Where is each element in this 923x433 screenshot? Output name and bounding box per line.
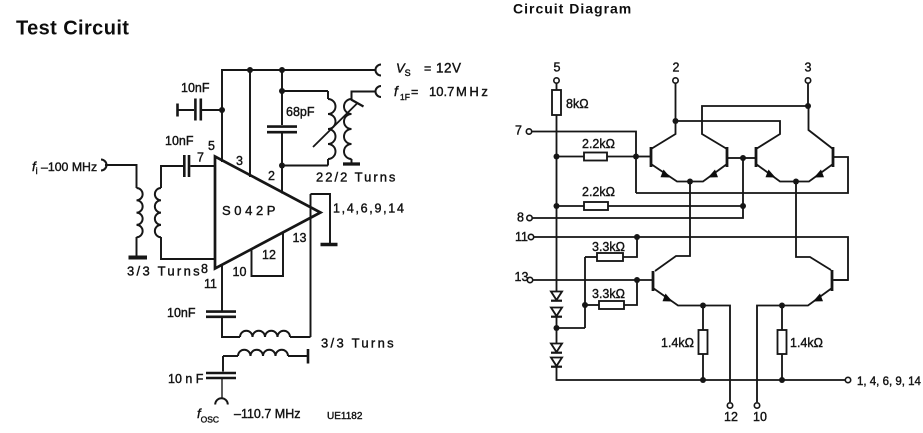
transistor Q5 base bar (652, 271, 655, 291)
inductor T1 secondary 3/3 turns (155, 188, 161, 237)
svg-text:10nF: 10nF (165, 134, 194, 148)
resistor R6 1.4k body (699, 330, 708, 354)
wire tank frame top (282, 90, 328, 92)
capacitor C1 10nF open terminal bar (176, 104, 179, 117)
ground T2 secondary (343, 162, 360, 165)
wire pin3 riser (249, 70, 251, 177)
wire pin12 loop (252, 233, 284, 276)
pin 3 terminal (805, 78, 810, 83)
transistor Q2 base bar (726, 147, 729, 167)
transistor Q4 collector (809, 106, 834, 149)
svg-text:7: 7 (515, 124, 522, 138)
svg-text:2: 2 (673, 61, 680, 75)
svg-text:3: 3 (805, 61, 812, 75)
capacitor C5 10nF plates (206, 372, 236, 375)
arrow Q5 emitter (663, 294, 673, 302)
transistor Q1 collector (651, 121, 676, 149)
node dot Q2/Q3 base tie (740, 155, 746, 161)
svg-text:1,4,6,9,14: 1,4,6,9,14 (333, 202, 406, 216)
wire Vs rail (222, 70, 376, 110)
svg-text:=: = (411, 85, 418, 99)
inductor T2 primary 22 turns (327, 91, 329, 99)
capacitor C3 68pF plates (267, 125, 297, 128)
transistor Q3 base bar (755, 147, 758, 167)
wire D4 to rail (557, 366, 846, 380)
resistor R2 2.2k body (584, 153, 607, 161)
svg-text:10nF: 10nF (181, 81, 210, 95)
terminal pins 1,4,6,9,14 (845, 377, 850, 382)
wire Vs to tank top (281, 70, 283, 125)
svg-text:=: = (424, 62, 431, 76)
wire R2 leads (557, 156, 585, 158)
pin 11 terminal (528, 234, 533, 239)
node dot tank top (279, 88, 285, 94)
svg-text:13: 13 (293, 231, 307, 245)
transistor Q3 emitter (756, 164, 796, 182)
svg-text:fi –100 MHz: fi –100 MHz (32, 159, 97, 176)
pin 5 terminal (554, 78, 559, 83)
wire T1 secondary bottom to pin 8 (161, 237, 215, 259)
node dot pin2/collectors (673, 118, 679, 124)
wire Q3 base lead (743, 157, 756, 159)
svg-text:5: 5 (554, 61, 561, 75)
svg-text:10: 10 (233, 265, 247, 279)
transistor Q6 base bar (831, 270, 834, 291)
resistor R5 3.3k body (599, 301, 624, 309)
wire right emitters to Q6 collector (796, 182, 831, 271)
transistor Q1 base bar (650, 147, 653, 167)
wire R5 leads (585, 304, 599, 306)
tuning arrow T2 (313, 104, 357, 148)
wire R7 leads (781, 306, 783, 331)
wire pin8 to R3 node (533, 206, 744, 218)
transistor Q6 emitter (782, 288, 832, 306)
wire L4 to C5 (222, 356, 224, 372)
svg-text:5: 5 (208, 139, 215, 153)
wire pin7 to Q1 base (532, 132, 636, 194)
node dot R4 riser on pin11 line (634, 234, 640, 240)
wire D2 to tap (556, 316, 558, 344)
arrow Q2 emitter (708, 170, 718, 178)
node dot R3 left (554, 203, 560, 209)
svg-text:2.2kΩ: 2.2kΩ (582, 137, 615, 151)
svg-text:7: 7 (197, 151, 204, 165)
wire fIF line (352, 92, 376, 100)
pin 12 terminal (727, 403, 732, 408)
wire pin2 drop (675, 83, 677, 121)
svg-text:UE1182: UE1182 (327, 411, 363, 422)
wire T1 secondary top to C2 (161, 166, 183, 188)
wire tank frame bottom (282, 165, 328, 167)
capacitor C4 10nF plates (206, 310, 236, 313)
svg-text:10nF: 10nF (167, 306, 196, 320)
wire C4 to L3 (222, 318, 240, 337)
arrow Q3 emitter (766, 170, 776, 178)
wire 68pF bottom to pin 2 (281, 134, 283, 194)
node dot R5 left (582, 302, 588, 308)
pin 10 terminal (754, 403, 759, 408)
svg-text:1F: 1F (400, 92, 410, 102)
ground T1 primary (129, 256, 148, 260)
node dot left pair emitters (687, 179, 693, 185)
wire Q5 emitter to pin12 (703, 306, 730, 403)
svg-text:22/2 Turns: 22/2 Turns (316, 170, 397, 185)
svg-text:MHz: MHz (456, 84, 491, 99)
resistor R3 2.2k body (584, 202, 608, 210)
wire Q1 base lead (636, 156, 650, 158)
node dot 68pF/Vs (279, 67, 285, 73)
resistor R1 8k body (552, 90, 561, 115)
arrow Q6 emitter (813, 294, 823, 302)
capacitor C2 10nF (pin7 coupling) plates (183, 155, 186, 177)
transistor Q4 emitter (796, 164, 833, 182)
resistor R4 3.3k body (597, 253, 623, 261)
node junction dot C1/Vs (219, 107, 225, 113)
svg-text:68pF: 68pF (286, 105, 315, 119)
wire pin3 drop (807, 83, 809, 106)
transistor Q2 collector (702, 106, 808, 149)
wire R4 leads (585, 256, 597, 258)
node dot R7 rail (779, 377, 785, 383)
op-amp U1 S042P triangle (215, 157, 321, 269)
svg-text:1, 4, 6, 9, 14: 1, 4, 6, 9, 14 (857, 376, 922, 388)
wire Q6 emitter to pin10 (757, 306, 782, 403)
wire left emitters to Q5 collector (655, 182, 690, 272)
node dot tank bottom / pin2 (279, 163, 285, 169)
inductor L3 3/3 turns oscillator primary (240, 331, 290, 337)
node dot R6 rail (700, 377, 706, 383)
diode D3 (551, 344, 562, 353)
arrow Q4 emitter (814, 170, 824, 178)
wire pins 1,4,6,9,14 bracket (311, 194, 331, 243)
wire C1 to junction (202, 109, 222, 111)
svg-text:1.4kΩ: 1.4kΩ (661, 336, 694, 350)
connector J2 Vs (376, 65, 382, 76)
ground pins 1,4,6,9,14 (321, 243, 338, 247)
node dot Q5 emitter (700, 303, 706, 309)
arrow Q1 emitter (661, 170, 671, 178)
node dot Q6 emitter (779, 303, 785, 309)
wire L3 to pin13 riser (290, 336, 311, 338)
connector J1 fi input (101, 160, 107, 171)
wire pin13 to Q5 base (533, 279, 652, 281)
wire R3 leads (557, 205, 585, 207)
pin 7 terminal (526, 129, 531, 134)
svg-text:S 0 4 2 P: S 0 4 2 P (222, 203, 275, 218)
svg-text:8kΩ: 8kΩ (566, 97, 589, 111)
connector J3 fIF (376, 86, 382, 97)
svg-text:–110.7 MHz: –110.7 MHz (234, 407, 300, 421)
svg-text:3: 3 (236, 154, 243, 168)
svg-text:12V: 12V (436, 61, 462, 76)
transistor Q5 emitter (653, 288, 703, 306)
svg-text:3/3 Turns: 3/3 Turns (321, 336, 396, 351)
svg-text:2.2kΩ: 2.2kΩ (582, 185, 615, 199)
wire 3.3k common riser (584, 257, 586, 328)
wire pin7 cross line to Q4 base (636, 157, 848, 193)
wire Q6 base lead from pin11 riser (832, 279, 848, 281)
wire riser to diode chain (557, 327, 586, 329)
wire R6 leads (702, 306, 704, 331)
wire fi to transformer T1 (105, 165, 137, 188)
svg-text:12: 12 (262, 248, 276, 262)
svg-text:8: 8 (201, 262, 208, 276)
svg-text:3.3kΩ: 3.3kΩ (592, 287, 625, 301)
pin 13 terminal (527, 277, 532, 282)
svg-text:Circuit Diagram: Circuit Diagram (513, 1, 632, 17)
diode D2 (551, 308, 562, 317)
inductor T1 primary 3/3 turns (137, 188, 143, 237)
inductor L4 3/3 turns oscillator secondary (223, 355, 238, 357)
wire Q2 base lead (727, 157, 743, 159)
wire pin11 to Q6 base (534, 237, 848, 280)
svg-text:11: 11 (515, 230, 528, 244)
wire C1 left stub (178, 109, 195, 111)
node dot right pair emitters (793, 179, 799, 185)
svg-text:10 n F: 10 n F (168, 372, 204, 386)
node dot pin3/collectors (805, 103, 811, 109)
svg-text:11: 11 (204, 277, 217, 291)
capacitor C1 10nF plates (194, 99, 197, 121)
transistor Q1 emitter (651, 164, 690, 182)
wire C5 to fosc connector (221, 379, 223, 399)
node dot pin3/Vs (247, 67, 253, 73)
connector J4 fosc (215, 398, 228, 404)
inductor T2 secondary 2 turns (351, 92, 353, 100)
svg-text:10: 10 (753, 410, 767, 424)
svg-text:13: 13 (515, 270, 529, 284)
svg-text:3.3kΩ: 3.3kΩ (592, 240, 625, 254)
wire pin5 to R1 (556, 83, 558, 90)
svg-text:3/3 Turns: 3/3 Turns (127, 264, 202, 279)
node dot diode chain tap (554, 325, 560, 331)
svg-text:8: 8 (517, 211, 524, 225)
svg-text:12: 12 (724, 410, 738, 424)
node dot R2 left (554, 154, 560, 160)
pin 8 terminal (527, 215, 532, 220)
transistor Q2 emitter (690, 164, 727, 182)
svg-text:1.4kΩ: 1.4kΩ (790, 336, 823, 350)
diode D1 (551, 292, 562, 301)
svg-text:10.7: 10.7 (429, 84, 454, 99)
diode D4 (551, 358, 562, 367)
wire pin13 riser (310, 194, 312, 337)
node dot R3/pin8 (740, 203, 746, 209)
wire bias chain vertical (556, 115, 558, 292)
svg-text:Test Circuit: Test Circuit (16, 18, 129, 40)
terminal bar L4 right (307, 349, 310, 364)
node dot Q1 base / R2 right (633, 154, 639, 160)
wire T1 primary to ground (136, 237, 138, 256)
node dot R5 riser on pin13 line (634, 277, 640, 283)
wire R3 node to Q2/Q3 bases (742, 158, 744, 206)
transistor Q3 collector (676, 121, 781, 149)
resistor R7 1.4k body (778, 330, 787, 354)
pin 2 terminal (673, 78, 678, 83)
wire C2 to pin 7 (190, 165, 215, 167)
transistor Q4 base bar (832, 147, 835, 167)
svg-text:2: 2 (268, 169, 275, 183)
wire pin11 drop (221, 265, 223, 311)
wire pin5 riser (221, 110, 223, 162)
